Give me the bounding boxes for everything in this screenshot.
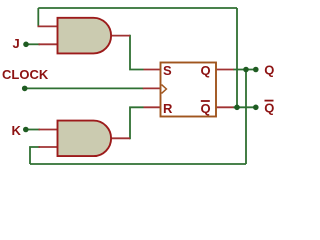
SR latch U3 body — [161, 63, 217, 117]
svg-text:R: R — [163, 101, 173, 116]
AND gate U2 (K gate) — [58, 121, 112, 157]
terminal dot Q — [253, 67, 259, 73]
pin U2 input B (from feedback) — [39, 146, 58, 148]
pin U3 S input — [144, 69, 161, 71]
pin U3 Q output — [216, 69, 234, 71]
pin U3 Qbar output — [216, 106, 234, 108]
pin U3 clock input — [143, 87, 161, 89]
pin label Qbar inside — [201, 101, 211, 116]
wire CLOCK input — [25, 87, 144, 89]
svg-text:S: S — [163, 63, 172, 78]
terminal dot J — [23, 42, 29, 48]
wire Q output line — [233, 69, 256, 71]
svg-text:CLOCK: CLOCK — [2, 67, 49, 82]
label Qbar output — [264, 100, 274, 115]
wire K input — [26, 129, 40, 131]
wire U1 output to S input — [129, 36, 144, 70]
svg-text:K: K — [12, 123, 22, 138]
junction node Q feedback — [243, 67, 249, 73]
terminal dot Qbar — [253, 105, 259, 111]
svg-text:Q: Q — [264, 63, 274, 78]
svg-text:Q: Q — [201, 63, 211, 78]
wire Q feedback vertical (to K-gate) — [245, 70, 247, 165]
clock edge triangle — [162, 85, 167, 94]
pin U2 output — [110, 137, 130, 139]
pin U3 R input — [144, 106, 161, 108]
wire bottom feedback left vertical — [30, 147, 40, 164]
wire top feedback (Qbar to J-gate) horizontal — [38, 7, 237, 9]
terminal dot CLOCK — [22, 86, 28, 92]
pin U1 output — [110, 35, 130, 37]
wire U2 output to R input — [129, 107, 144, 138]
AND gate U1 (J gate) — [58, 18, 112, 54]
wire feedback right vertical (net Qbar) — [236, 8, 238, 107]
pin U2 input A (K) — [39, 129, 58, 131]
wire top feedback left vertical — [37, 8, 39, 26]
wire J input — [26, 43, 40, 45]
pin U1 input A (from feedback) — [38, 25, 58, 27]
junction node Qbar feedback — [234, 105, 240, 111]
pin U1 input B (J) — [39, 43, 58, 45]
terminal dot K — [23, 127, 29, 133]
wire bottom feedback horizontal — [30, 163, 246, 165]
svg-text:J: J — [13, 36, 20, 51]
wire Qbar output line — [233, 106, 256, 108]
svg-text:Q: Q — [201, 101, 211, 116]
svg-text:Q: Q — [264, 100, 274, 115]
